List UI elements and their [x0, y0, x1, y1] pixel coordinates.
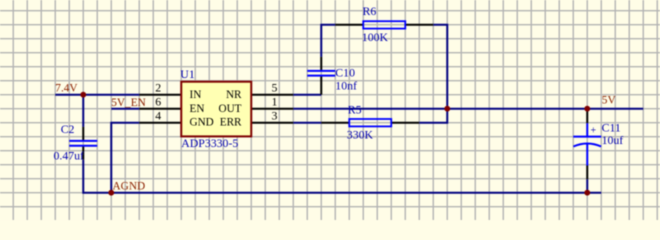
svg-text:EN: EN — [190, 103, 205, 115]
svg-text:1: 1 — [272, 95, 278, 109]
svg-text:R6: R6 — [363, 4, 377, 18]
svg-text:10uf: 10uf — [602, 133, 624, 147]
svg-text:OUT: OUT — [219, 103, 242, 115]
svg-text:3: 3 — [272, 109, 278, 123]
svg-text:AGND: AGND — [113, 181, 146, 193]
svg-text:7.4V: 7.4V — [55, 83, 78, 95]
svg-text:R5: R5 — [348, 103, 362, 117]
svg-text:ADP3330-5: ADP3330-5 — [181, 136, 238, 150]
svg-text:100K: 100K — [362, 30, 389, 44]
svg-text:2: 2 — [155, 81, 161, 95]
svg-text:5V: 5V — [602, 95, 617, 107]
svg-text:C2: C2 — [61, 122, 75, 136]
svg-text:330K: 330K — [347, 128, 374, 142]
svg-text:IN: IN — [190, 89, 202, 101]
svg-text:5V_EN: 5V_EN — [111, 97, 146, 109]
svg-text:+: + — [591, 125, 597, 136]
svg-text:NR: NR — [226, 89, 242, 101]
svg-text:5: 5 — [272, 81, 278, 95]
svg-text:0.47uf: 0.47uf — [54, 148, 85, 162]
svg-text:U1: U1 — [180, 67, 195, 81]
svg-text:6: 6 — [155, 95, 161, 109]
svg-text:10nf: 10nf — [335, 78, 357, 92]
svg-text:ERR: ERR — [220, 117, 242, 129]
svg-text:4: 4 — [155, 109, 161, 123]
svg-text:GND: GND — [190, 117, 214, 129]
